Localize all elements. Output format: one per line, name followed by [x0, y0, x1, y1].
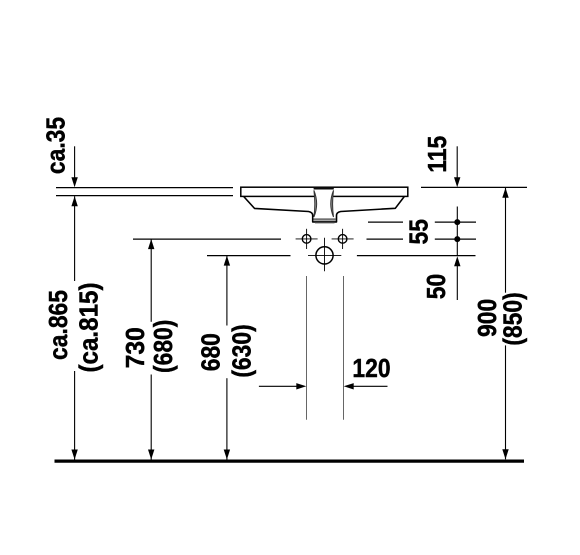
svg-text:680: 680: [197, 333, 226, 371]
reference line y=239 (faucet hole level): [133, 238, 476, 240]
dimension 55 chain line with dots: [456, 207, 458, 256]
reference line y=255.6 (drain hole level): [207, 255, 476, 257]
svg-text:730: 730: [121, 327, 150, 368]
faucet hole left: [296, 229, 318, 249]
drain column top edge: [314, 187, 334, 190]
drain column foot inner lines: [314, 218, 336, 220]
dimension 900 line: [505, 188, 507, 460]
drain column left wall lens: [314, 190, 317, 217]
svg-text:115: 115: [424, 136, 453, 173]
drain column (spool) white body mask: [315, 190, 333, 221]
dimension 680 line: [226, 256, 228, 460]
svg-text:120: 120: [352, 355, 390, 384]
svg-text:(ca.815): (ca.815): [75, 282, 104, 372]
washbasin rim band: [241, 187, 408, 196]
dimension 730 line: [150, 239, 152, 459]
120 vertical extension lines: [307, 276, 344, 420]
dimension 115 line: [456, 146, 458, 179]
drain hole circle: [308, 238, 341, 271]
rim level reference line right: [421, 186, 527, 188]
svg-text:ca.865: ca.865: [45, 290, 74, 360]
dimension ca.865 line: [74, 196, 76, 459]
svg-text:(680): (680): [150, 320, 179, 373]
dimension ca.35 line: [74, 146, 76, 179]
svg-text:(850): (850): [499, 292, 528, 345]
reference line y=222 (basin bottom level): [368, 221, 476, 223]
svg-text:900: 900: [474, 299, 503, 337]
svg-text:ca.35: ca.35: [42, 117, 71, 174]
svg-text:(630): (630): [228, 324, 257, 377]
washbasin under-body outline: [244, 197, 404, 222]
svg-text:50: 50: [423, 274, 452, 299]
dimension 50 arrow: [456, 264, 458, 300]
drain column right wall lens: [331, 190, 334, 217]
svg-text:55: 55: [405, 219, 434, 244]
faucet hole right: [332, 229, 354, 249]
countertop double line left: [56, 188, 233, 196]
dimension 120 arrows: [259, 385, 298, 387]
floor line: [55, 460, 525, 463]
